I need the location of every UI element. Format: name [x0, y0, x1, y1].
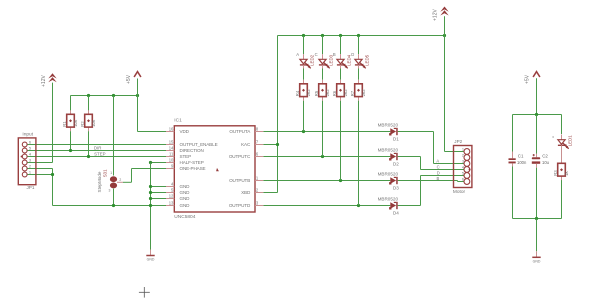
wire D4 cathode to JP2 pin5 (net D)	[398, 205, 421, 207]
wire KAC to +12V column	[263, 144, 277, 146]
svg-text:S31: S31	[103, 169, 108, 177]
svg-text:GND: GND	[147, 258, 155, 262]
svg-text:B: B	[333, 52, 336, 57]
stub LED1 to R3	[561, 145, 563, 163]
svg-text:A: A	[296, 52, 299, 57]
wire XBD	[263, 192, 277, 194]
svg-text:GND: GND	[180, 203, 191, 208]
wire gnd drop right	[536, 219, 538, 252]
svg-text:2: 2	[29, 164, 31, 169]
supply +12V top-right	[433, 7, 449, 22]
wire LED1/R3 branch	[561, 115, 563, 135]
svg-text:GND: GND	[180, 184, 191, 189]
wire IC gnd pins	[151, 186, 167, 188]
svg-text:MBR0520: MBR0520	[378, 123, 399, 128]
svg-text:OUTPUTD: OUTPUTD	[229, 203, 251, 208]
wire LED column x=303.5	[303, 36, 305, 55]
wire STEP net	[27, 156, 166, 158]
svg-text:R4: R4	[295, 90, 300, 96]
svg-text:D3: D3	[393, 186, 399, 191]
svg-text:MBR0520: MBR0520	[378, 172, 399, 177]
svg-text:6: 6	[462, 177, 464, 182]
wire OUTPUTB net to D3	[263, 180, 390, 182]
svg-text:+5V: +5V	[126, 74, 132, 84]
svg-text:7: 7	[256, 140, 259, 145]
svg-text:STEP: STEP	[94, 152, 106, 157]
svg-text:5: 5	[29, 146, 31, 151]
node LED column B junction	[339, 179, 342, 182]
node R1-DIR junction	[69, 149, 72, 152]
svg-text:R2: R2	[80, 121, 85, 127]
svg-text:XBD: XBD	[241, 190, 251, 195]
svg-text:OUTPUTB: OUTPUTB	[229, 178, 250, 183]
svg-text:8: 8	[256, 127, 259, 132]
svg-text:R7: R7	[350, 90, 355, 96]
svg-text:+5V: +5V	[524, 74, 530, 84]
svg-text:D2: D2	[393, 162, 399, 167]
svg-text:MBR0520: MBR0520	[378, 197, 399, 202]
wire JP1 pin1 / gnd drop	[52, 169, 54, 206]
svg-text:C1: C1	[518, 153, 524, 158]
wire C2 branch	[536, 115, 538, 154]
wire D3 cathode to JP2 pin6 (net B)	[398, 180, 458, 182]
node LED column C junction	[321, 155, 324, 158]
node switch column junction	[112, 94, 115, 97]
svg-text:A: A	[551, 136, 555, 138]
svg-text:2k2: 2k2	[343, 89, 348, 97]
svg-text:2k2: 2k2	[325, 89, 330, 97]
wire +5V rail above R1 R2	[71, 95, 138, 97]
supply +5V left	[126, 72, 141, 84]
svg-text:14: 14	[169, 146, 174, 151]
svg-text:1: 1	[462, 147, 464, 152]
svg-text:OUTPUT_ENABLE: OUTPUT_ENABLE	[180, 142, 218, 147]
svg-text:2k2: 2k2	[306, 89, 311, 97]
node switch-gnd junction	[112, 204, 115, 207]
svg-text:OUTPUTC: OUTPUTC	[229, 154, 251, 159]
wire R2 top	[88, 96, 90, 111]
op-amp U1 driver IC1 UNC5804	[166, 118, 263, 220]
connector JP1 Input	[18, 132, 36, 190]
svg-text:GND: GND	[180, 190, 191, 195]
svg-text:11: 11	[169, 152, 174, 157]
wire switch top feed	[113, 96, 115, 176]
svg-text:UNC5804: UNC5804	[174, 214, 195, 220]
wire C1 branch	[512, 115, 514, 152]
svg-text:LED5: LED5	[365, 54, 370, 66]
svg-text:HALF-STEP: HALF-STEP	[180, 160, 204, 165]
wire OUTPUTC net to D2	[263, 156, 390, 158]
wire +12V column down to XBD	[277, 36, 279, 193]
svg-text:16: 16	[169, 127, 174, 132]
switch S31 StepMode	[97, 169, 123, 193]
wire OUTPUTD net to D4	[263, 205, 390, 207]
wire +5V right drop	[536, 78, 538, 114]
svg-text:KAC: KAC	[241, 142, 251, 147]
svg-text:C: C	[437, 165, 440, 170]
wire JP1 pin2	[27, 168, 53, 170]
wire ground rail bottom-left	[53, 205, 151, 207]
ground symbol left	[146, 250, 155, 262]
wire +12V LED rail	[278, 35, 445, 37]
svg-text:2: 2	[462, 153, 464, 158]
svg-text:Input: Input	[22, 132, 33, 138]
wire top rail right block	[513, 114, 562, 116]
wire gnd column	[150, 163, 152, 250]
svg-text:R6: R6	[332, 90, 337, 96]
svg-text:DIR: DIR	[94, 146, 102, 151]
svg-text:1: 1	[110, 171, 112, 175]
wire DIR net	[27, 150, 166, 152]
svg-text:JP1: JP1	[27, 185, 35, 190]
resistor R6	[332, 80, 348, 101]
diode D3 MBR0520	[378, 172, 400, 191]
node gnd pin junctions	[149, 185, 152, 188]
LED LED1	[558, 135, 573, 149]
node R2-STEP junction	[87, 155, 90, 158]
svg-text:1: 1	[29, 170, 31, 175]
node KAC junction	[276, 143, 279, 146]
node +5V drop junction	[136, 94, 139, 97]
svg-text:+12V: +12V	[433, 9, 439, 21]
diode D2 MBR0520	[378, 148, 400, 167]
svg-text:10u: 10u	[542, 160, 550, 165]
svg-text:D1: D1	[393, 137, 399, 142]
svg-text:VDD: VDD	[180, 129, 190, 134]
svg-text:Motor: Motor	[453, 189, 466, 195]
svg-text:6: 6	[256, 152, 259, 157]
svg-text:R5: R5	[314, 90, 319, 96]
svg-text:StepMode: StepMode	[97, 171, 102, 192]
node LED rail junctions	[302, 34, 305, 37]
svg-text:LED1: LED1	[568, 135, 573, 147]
svg-text:1k: 1k	[564, 170, 569, 175]
wire LED column x=322.5	[322, 36, 324, 55]
wire R1 bottom to DIR	[70, 131, 72, 150]
svg-text:A: A	[436, 159, 439, 164]
wire switch bottom to gnd rail	[113, 189, 115, 206]
svg-text:MBR0520: MBR0520	[378, 148, 399, 153]
supply +12V left	[41, 73, 57, 87]
svg-text:D4: D4	[393, 211, 399, 216]
ground symbol right	[532, 251, 541, 263]
diode D4 MBR0520	[378, 197, 400, 216]
wire OUTPUTA net to D1	[263, 131, 390, 133]
node R2 top junction	[87, 94, 90, 97]
svg-text:13: 13	[169, 201, 174, 206]
wire LED column x=358.5	[358, 36, 360, 55]
svg-text:10k: 10k	[73, 119, 78, 127]
svg-text:+12V: +12V	[41, 75, 47, 87]
wire +5V drop to VDD	[137, 79, 139, 132]
node half-step junction	[149, 161, 152, 164]
svg-text:IC1: IC1	[174, 118, 182, 124]
wire ONE-PHASE from switch	[123, 181, 132, 183]
wire D1 cathode to JP2 pin3 (net A)	[398, 131, 434, 133]
capacitor C1 100n	[509, 152, 527, 167]
wire LED column x=340.5	[340, 36, 342, 55]
wire +12V supply drop to JP1 pin3	[52, 83, 54, 163]
wire +12V right drop to JP2 pin1	[444, 16, 446, 151]
wire R2 bottom to STEP	[88, 131, 90, 156]
svg-text:15: 15	[169, 140, 174, 145]
resistor R5	[314, 80, 330, 101]
node bottom rail junction	[535, 217, 538, 220]
resistor R4	[295, 80, 311, 101]
svg-text:DIRECTION: DIRECTION	[180, 148, 204, 153]
supply +5V right	[524, 72, 540, 84]
capacitor C2 10u polarized	[532, 153, 550, 167]
svg-text:3: 3	[256, 201, 259, 206]
svg-text:ONE-PHASE: ONE-PHASE	[180, 166, 206, 171]
svg-text:6: 6	[29, 140, 31, 145]
svg-text:JP2: JP2	[454, 139, 462, 144]
resistor R3	[553, 159, 569, 180]
svg-text:12: 12	[169, 194, 174, 199]
svg-text:STEP: STEP	[180, 154, 192, 159]
svg-text:3: 3	[109, 189, 111, 193]
svg-text:C2: C2	[542, 153, 548, 158]
svg-text:GND: GND	[180, 196, 191, 201]
node junction pin1/pin2	[51, 173, 54, 176]
svg-text:1: 1	[256, 176, 259, 181]
node LED column D junction	[357, 204, 360, 207]
wire bottom rail right block	[513, 218, 562, 220]
svg-text:R3: R3	[553, 170, 558, 176]
svg-text:3: 3	[462, 159, 464, 164]
resistor R1	[62, 110, 78, 131]
diode D1 MBR0520	[378, 123, 400, 142]
LED LED4	[337, 54, 352, 68]
svg-text:4: 4	[29, 152, 32, 157]
svg-text:GND: GND	[533, 259, 541, 263]
resistor R7	[350, 80, 366, 101]
svg-text:2: 2	[256, 188, 259, 193]
wire HALF-STEP to gnd column	[151, 162, 167, 164]
svg-text:R1: R1	[62, 121, 67, 127]
svg-text:D: D	[351, 52, 354, 57]
svg-text:5: 5	[462, 171, 464, 176]
LED LED2	[300, 54, 315, 68]
LED LED5	[355, 54, 370, 68]
connector JP2 Motor	[453, 139, 472, 195]
node +5V rail junction	[535, 113, 538, 116]
svg-text:10: 10	[169, 158, 174, 163]
svg-text:B: B	[437, 176, 440, 181]
svg-text:100n: 100n	[517, 160, 527, 165]
svg-text:C: C	[315, 52, 318, 57]
node LED column A junction	[302, 130, 305, 133]
resistor R2	[80, 110, 96, 131]
svg-text:2k2: 2k2	[361, 89, 366, 97]
svg-text:3: 3	[29, 158, 31, 163]
wire D2 cathode to JP2 pin4 (net C)	[398, 156, 421, 158]
origin crosshair mark	[139, 287, 150, 298]
LED LED3	[319, 54, 334, 68]
svg-text:10k: 10k	[91, 119, 96, 127]
wire R1 top	[70, 96, 72, 111]
wire OUTPUT_ENABLE net (JP1.6 to IC)	[27, 144, 166, 146]
svg-text:2: 2	[119, 178, 121, 182]
svg-text:OUTPUTA: OUTPUTA	[229, 129, 251, 134]
